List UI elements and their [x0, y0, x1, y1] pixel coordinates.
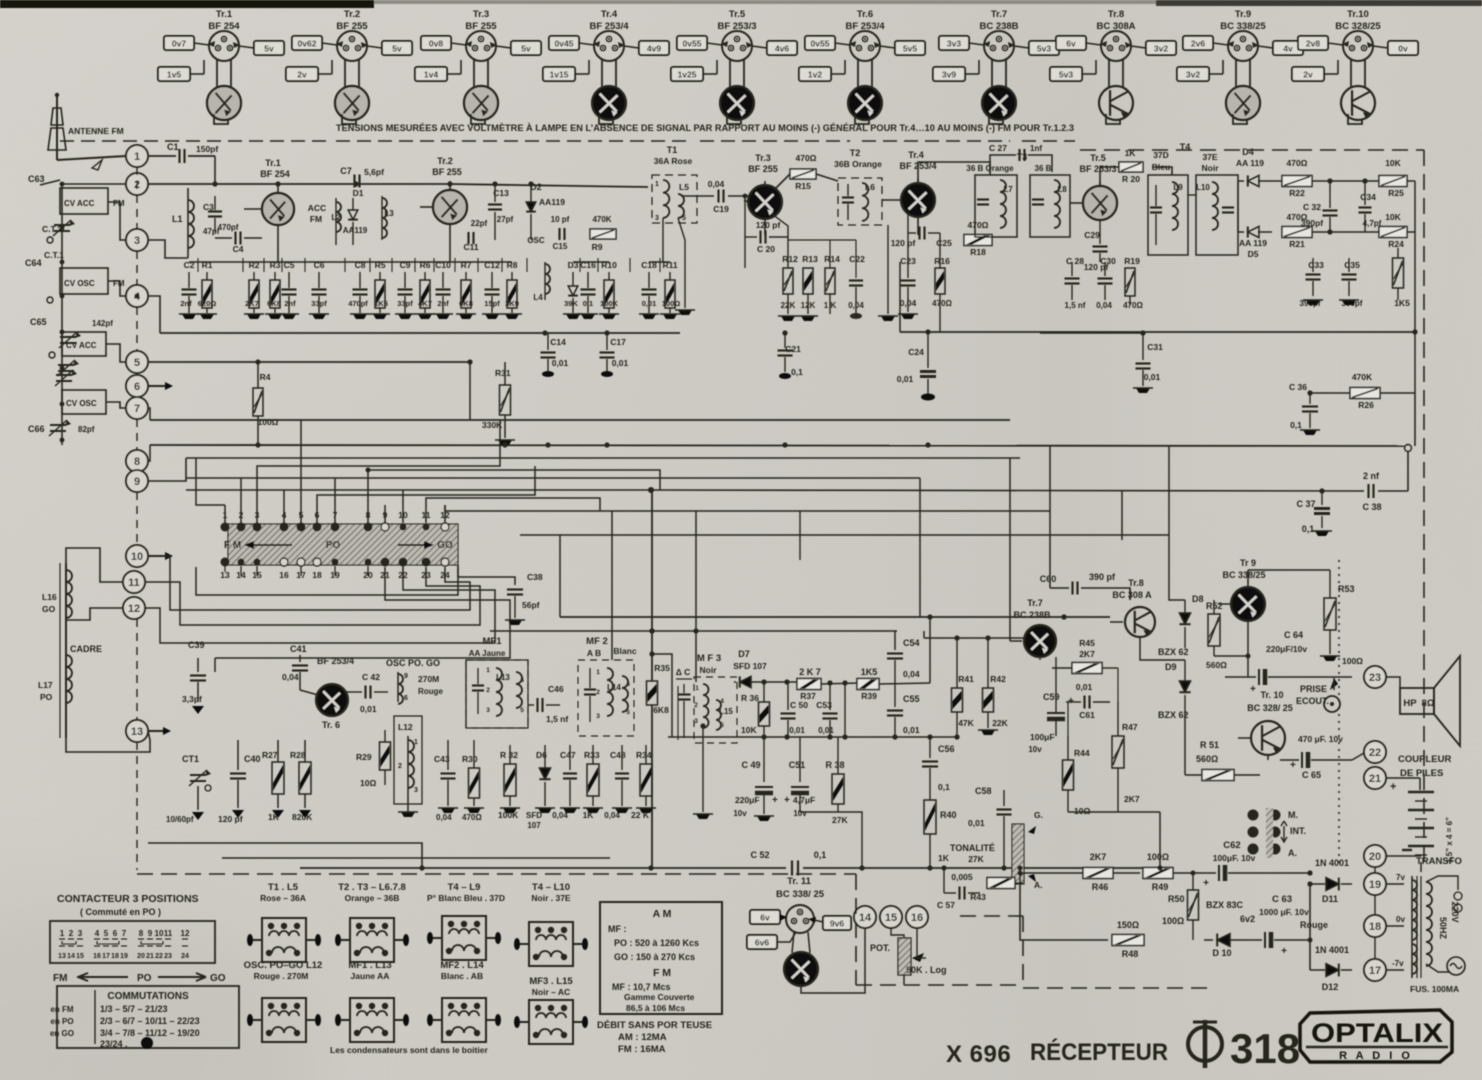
svg-text:R 38: R 38	[825, 760, 844, 770]
svg-text:D8: D8	[1192, 594, 1204, 604]
svg-text:470Ω: 470Ω	[1287, 212, 1308, 222]
transistor Tr.1 BF254 (circuit)	[244, 158, 294, 262]
svg-text:C58: C58	[975, 786, 992, 796]
svg-text:Noir: Noir	[700, 665, 718, 675]
svg-text:5: 5	[134, 357, 140, 369]
svg-text:0,1: 0,1	[791, 367, 803, 377]
node 23	[1364, 666, 1386, 688]
capacitor C4 470pf	[215, 223, 262, 254]
switch pin 1	[221, 505, 230, 532]
capacitor C50 0,01	[781, 682, 809, 737]
resistor R36 10K	[741, 682, 770, 737]
node 17	[1364, 959, 1386, 981]
resistor R53 100ohm	[1320, 570, 1363, 666]
switch pin 20	[363, 559, 373, 581]
svg-text:17: 17	[1369, 965, 1381, 977]
svg-text:R27: R27	[262, 750, 278, 760]
svg-text:FM: FM	[53, 973, 67, 984]
resistor R42 22K	[978, 638, 1009, 735]
svg-text:5v: 5v	[392, 44, 402, 54]
transistor Tr.11 BC338/25 (voltage chart)	[747, 876, 865, 993]
svg-text:GO: GO	[42, 604, 56, 614]
svg-text:27pf: 27pf	[497, 215, 514, 224]
svg-text:C 27: C 27	[989, 143, 1007, 153]
svg-text:R25: R25	[1388, 188, 1404, 198]
svg-text:1: 1	[134, 151, 140, 163]
svg-text:Tr.5: Tr.5	[729, 9, 746, 20]
svg-text:AA 119: AA 119	[1239, 238, 1267, 248]
capacitor C12	[482, 260, 502, 319]
svg-text:L14: L14	[607, 683, 621, 692]
svg-text:120 pf: 120 pf	[756, 220, 781, 230]
svg-text:1: 1	[414, 739, 418, 746]
svg-text:en GO: en GO	[50, 1029, 74, 1038]
svg-text:MF3 . L15: MF3 . L15	[529, 976, 573, 987]
svg-text:0v7: 0v7	[172, 39, 186, 49]
svg-text:100μF. 10v: 100μF. 10v	[1213, 853, 1256, 863]
svg-text:CV ACC: CV ACC	[66, 341, 97, 350]
svg-text:L5: L5	[679, 182, 689, 192]
svg-text:BC 338/25: BC 338/25	[1222, 570, 1265, 580]
svg-text:Tr. 6: Tr. 6	[322, 720, 340, 730]
svg-text:0,1: 0,1	[938, 782, 950, 792]
svg-text:R26: R26	[1358, 400, 1374, 410]
svg-text:10Ω: 10Ω	[1074, 806, 1090, 816]
svg-text:0,01: 0,01	[789, 726, 805, 735]
svg-text:R28: R28	[290, 750, 306, 760]
svg-text:T2: T2	[850, 148, 861, 158]
svg-text:R24: R24	[1388, 239, 1404, 249]
svg-text:PO: PO	[326, 540, 341, 551]
svg-text:10v: 10v	[1028, 745, 1042, 754]
svg-text:MF1 . L13: MF1 . L13	[348, 960, 391, 971]
switch pin 8	[364, 505, 373, 532]
svg-text:5: 5	[104, 929, 109, 938]
svg-text:L17: L17	[38, 680, 53, 690]
top scan edge dark strips	[0, 0, 374, 8]
svg-text:R15: R15	[795, 181, 811, 191]
commutations table box	[50, 986, 239, 1049]
svg-text:37E: 37E	[1202, 152, 1217, 162]
svg-text:3: 3	[694, 718, 698, 725]
switch pin 17	[296, 558, 306, 580]
svg-text:5v3: 5v3	[1059, 70, 1073, 80]
coil L12	[394, 716, 422, 817]
svg-text:4,7μF: 4,7μF	[793, 795, 815, 805]
capacitor C34 4,7pf	[1359, 181, 1382, 232]
transformer detail MF2 L14	[427, 960, 501, 1042]
svg-text:L13: L13	[496, 673, 510, 682]
svg-text:318: 318	[1230, 1025, 1300, 1072]
svg-text:10/60pf: 10/60pf	[166, 815, 194, 824]
bus node 2 right	[148, 183, 450, 185]
svg-text:2nf: 2nf	[437, 299, 449, 308]
svg-text:Bleu: Bleu	[1152, 162, 1170, 172]
svg-text:R 20: R 20	[1122, 174, 1140, 184]
svg-text:107: 107	[527, 821, 541, 830]
switch pin 7	[331, 505, 340, 532]
svg-text:3: 3	[134, 235, 140, 247]
svg-text:Noir . 37E: Noir . 37E	[531, 893, 571, 903]
switch routing loops below	[224, 562, 226, 572]
capacitor C60 390pf	[1040, 572, 1130, 600]
svg-text:36 B Orange: 36 B Orange	[966, 164, 1014, 173]
transistor Tr.4 BF253/4 (circuit)	[882, 150, 937, 235]
svg-text:L6: L6	[865, 182, 875, 192]
node 21	[1364, 767, 1386, 789]
OPTALIX RADIO logo box	[1300, 1010, 1452, 1062]
svg-text:CV ACC: CV ACC	[64, 199, 95, 208]
svg-text:6K8: 6K8	[653, 705, 669, 715]
svg-text:C54: C54	[903, 638, 920, 648]
resistor R46 2K7	[1083, 852, 1140, 892]
svg-text:R12: R12	[782, 254, 798, 264]
node 4	[126, 285, 148, 307]
svg-text:C46: C46	[548, 684, 564, 694]
svg-text:100Ω: 100Ω	[1342, 656, 1363, 666]
svg-text:C60: C60	[1040, 574, 1057, 584]
capacitor C13 27pf	[488, 184, 514, 240]
svg-text:R31: R31	[495, 368, 511, 378]
mid bus y617 and y631	[560, 616, 1110, 618]
svg-text:C66: C66	[28, 424, 45, 434]
svg-text:GO: GO	[210, 973, 226, 984]
MF1 transformer L13 dashed box	[466, 636, 528, 728]
capacitor C30	[1096, 256, 1116, 310]
resistor R26 470K with C36	[1310, 372, 1415, 410]
svg-text:C30: C30	[1100, 256, 1116, 266]
capacitor C64 220uF electrolytic	[1225, 630, 1352, 695]
svg-text:0v45: 0v45	[555, 39, 574, 49]
svg-text:BC 308 A: BC 308 A	[1112, 590, 1152, 600]
svg-text:SFD 107: SFD 107	[733, 661, 767, 671]
cadre frame antenna coils L16 GO / L17 PO	[38, 548, 150, 752]
switch pin 19	[330, 559, 340, 581]
svg-text:0,01: 0,01	[1144, 372, 1161, 382]
svg-text:100μF: 100μF	[1030, 732, 1055, 742]
svg-text:ANTENNE FM: ANTENNE FM	[68, 126, 124, 136]
svg-text:R9: R9	[592, 242, 603, 252]
svg-text:0,04: 0,04	[708, 179, 725, 189]
vertical bus x800	[799, 511, 801, 560]
svg-text:Tr.5: Tr.5	[1090, 153, 1106, 163]
switch pin 5	[297, 505, 306, 532]
svg-text:100Ω: 100Ω	[258, 417, 279, 427]
svg-text:0,1: 0,1	[1302, 524, 1315, 534]
svg-text:+: +	[1281, 946, 1287, 957]
svg-text:C14: C14	[550, 337, 566, 347]
svg-text:13: 13	[58, 953, 66, 960]
capacitor C41 0,04	[282, 644, 308, 690]
svg-text:39K: 39K	[564, 299, 578, 308]
capacitor C29 120pf	[1084, 220, 1109, 272]
switch MIA dots	[1248, 808, 1307, 858]
svg-text:8: 8	[139, 929, 144, 938]
svg-text:11: 11	[128, 577, 140, 589]
C52 bus and cap	[300, 850, 1160, 876]
svg-text:C62: C62	[1223, 840, 1240, 851]
diode D9 BZX62	[1158, 660, 1191, 775]
svg-text:470Ω: 470Ω	[968, 220, 989, 230]
switch pin 23	[421, 558, 431, 581]
resistor R10	[599, 260, 619, 319]
svg-text:2K7: 2K7	[1079, 649, 1095, 659]
svg-text:BC 238B: BC 238B	[1013, 610, 1051, 620]
svg-text:2nf: 2nf	[180, 299, 192, 308]
capacitor C62 100uF electrolytic	[1203, 840, 1310, 889]
svg-text:G.: G.	[1034, 810, 1043, 820]
svg-text:2v6: 2v6	[1191, 39, 1205, 49]
switch pin 15	[252, 559, 262, 581]
svg-text:22K: 22K	[992, 718, 1008, 728]
svg-text:16: 16	[911, 912, 923, 924]
svg-text:4: 4	[520, 677, 524, 684]
svg-text:22K: 22K	[781, 301, 796, 310]
svg-text:L1: L1	[172, 214, 183, 224]
transistor Tr.4 BF 253/4 (voltage chart)	[543, 9, 669, 124]
transformer TRANSFO	[1386, 856, 1465, 994]
svg-text:T1: T1	[667, 145, 678, 155]
svg-text:Gamme Couverte: Gamme Couverte	[624, 992, 695, 1002]
capacitor C24 0,01	[897, 332, 936, 401]
wire from bus 332 down right edge	[1414, 300, 1416, 393]
svg-text:220μF: 220μF	[735, 795, 760, 805]
svg-text:C19: C19	[713, 204, 729, 214]
svg-text:0,01: 0,01	[897, 374, 914, 384]
capacitor C49 220uF 10v electrolytic	[733, 737, 778, 821]
svg-text:C 52: C 52	[750, 850, 769, 860]
capacitor C16	[578, 260, 598, 319]
capacitor C7 5,6pf	[340, 166, 384, 188]
svg-text:1: 1	[596, 669, 600, 676]
capacitor C36 0,1	[1289, 382, 1320, 435]
svg-text:R48: R48	[1122, 949, 1139, 959]
svg-text:R35: R35	[654, 663, 670, 673]
resistor R43 27K	[968, 854, 1023, 902]
svg-text:1K5: 1K5	[861, 667, 878, 677]
svg-text:R39: R39	[861, 691, 877, 701]
transformer T4 coil L10 37E Noir	[1196, 152, 1238, 255]
wire Tr.3 emitter	[772, 214, 788, 268]
resistor R48 150ohm	[1112, 920, 1144, 959]
bottom bus under FM front end	[160, 332, 680, 334]
capacitor C6	[309, 260, 329, 319]
svg-text:6: 6	[404, 695, 408, 702]
resistor R18 470 horizontal dark	[964, 220, 992, 257]
svg-text:14: 14	[67, 953, 75, 960]
svg-text:0,01: 0,01	[818, 726, 834, 735]
resistor R45 2K7 feedback	[1052, 638, 1118, 674]
svg-text:C17: C17	[610, 337, 626, 347]
svg-text:T4 – L9: T4 – L9	[448, 882, 481, 893]
svg-text:en PO: en PO	[50, 1017, 73, 1026]
svg-text:0,1: 0,1	[1290, 420, 1302, 430]
coil L2	[331, 198, 341, 245]
capacitor C1 150pf	[148, 142, 218, 163]
svg-text:36B Orange: 36B Orange	[834, 159, 882, 169]
svg-text:L15: L15	[719, 707, 733, 716]
switch pin 16	[279, 558, 289, 580]
svg-text:11: 11	[164, 929, 173, 938]
svg-text:D1: D1	[353, 188, 364, 198]
resistor R38 27K	[800, 737, 862, 868]
svg-text:8: 8	[134, 456, 140, 468]
svg-text:2v: 2v	[297, 70, 307, 80]
resistor R23 1K5	[1393, 248, 1411, 308]
capacitor C20 120pf	[743, 194, 865, 321]
svg-text:4v9: 4v9	[647, 44, 661, 54]
node chain dashed spine	[136, 167, 138, 229]
svg-text:AA119: AA119	[539, 197, 565, 207]
svg-text:Tr.10: Tr.10	[1347, 9, 1369, 20]
svg-text:3v9: 3v9	[942, 70, 956, 80]
svg-text:Blanc: Blanc	[613, 646, 636, 656]
svg-text:Tr.3: Tr.3	[473, 9, 489, 20]
svg-text:MF1: MF1	[483, 636, 503, 647]
transistor Tr.7 BC238B	[1010, 598, 1056, 657]
svg-text:C61: C61	[1079, 710, 1095, 720]
diode D11 1N4001	[1310, 858, 1352, 904]
capacitor C28	[1065, 256, 1086, 310]
svg-text:A B: A B	[587, 648, 601, 658]
switch pin bottom stubs	[240, 566, 242, 576]
node 18	[1364, 915, 1386, 937]
svg-text:R 36: R 36	[741, 693, 759, 703]
transistor Tr.6 BF253/4 oscillator	[300, 656, 354, 730]
svg-text:COMMUTATIONS: COMMUTATIONS	[107, 991, 189, 1002]
svg-text:R43: R43	[970, 892, 986, 902]
svg-text:56pf: 56pf	[522, 600, 540, 610]
svg-text:10K: 10K	[1385, 212, 1401, 222]
capacitor C38 56pf	[458, 565, 543, 625]
svg-text:INT.: INT.	[1290, 826, 1306, 836]
svg-text:C 50: C 50	[790, 700, 808, 710]
svg-text:4: 4	[626, 681, 630, 688]
svg-text:BF 253/4: BF 253/4	[899, 161, 936, 171]
arrow stub node 10	[148, 555, 165, 557]
svg-text:Noir – AC: Noir – AC	[532, 987, 570, 997]
svg-text:TENSIONS MESURÉES AVEC VOLT: TENSIONS MESURÉES AVEC VOLTMÈTRE À LAMPE…	[336, 123, 1074, 134]
diode D3	[563, 260, 583, 319]
svg-text:en FM: en FM	[50, 1005, 73, 1014]
bottom rail y737 MF row	[668, 736, 957, 738]
bus y491 right half	[651, 490, 1364, 491]
bottom-left lower wires	[148, 843, 422, 868]
resistor R21 470ohm	[1282, 212, 1340, 249]
svg-text:C 32: C 32	[1303, 202, 1321, 212]
label row separator ticks FM front end	[197, 258, 199, 272]
svg-text:CV OSC: CV OSC	[64, 279, 95, 288]
svg-text:HP: HP	[1403, 698, 1417, 709]
switch pin 10	[398, 505, 408, 531]
svg-text:0,01: 0,01	[642, 299, 657, 308]
svg-text:1000 μF. 10v: 1000 μF. 10v	[1259, 907, 1309, 917]
node 20	[1364, 845, 1386, 867]
capacitor C47 0,04	[552, 745, 580, 820]
wire node20 to battery minus	[1386, 855, 1421, 857]
svg-text:+: +	[784, 795, 790, 806]
contactor pin diagram box	[50, 921, 215, 963]
svg-text:86,5 à 106 Mcs: 86,5 à 106 Mcs	[626, 1003, 685, 1013]
svg-text:560Ω: 560Ω	[1196, 754, 1218, 764]
svg-text:470Ω: 470Ω	[1287, 158, 1308, 168]
svg-text:Tr.4: Tr.4	[908, 150, 924, 160]
svg-text:3v2: 3v2	[1154, 44, 1168, 54]
svg-text:220μF/10v: 220μF/10v	[1266, 644, 1307, 654]
svg-text:+: +	[1203, 878, 1209, 889]
node 22	[1364, 741, 1386, 763]
svg-text:50HZ: 50HZ	[1438, 917, 1448, 940]
capacitor C33 390pf	[1300, 258, 1325, 308]
svg-text:0,04: 0,04	[900, 298, 917, 308]
capacitor C59 100uF electrolytic	[1028, 692, 1074, 754]
detector wiring	[1188, 194, 1196, 196]
switch pin 6	[313, 505, 322, 532]
coil L3	[382, 196, 394, 240]
svg-text:C35: C35	[1344, 260, 1360, 270]
svg-text:C25: C25	[936, 238, 952, 248]
svg-text:T2 . T3 – L6.7.8: T2 . T3 – L6.7.8	[338, 882, 406, 893]
capacitor C65 470uF electrolytic	[1280, 734, 1352, 780]
svg-text:1,5 nf: 1,5 nf	[546, 714, 568, 724]
svg-text:C38: C38	[527, 572, 543, 582]
svg-text:6v: 6v	[1066, 39, 1076, 49]
svg-text:Tr.8: Tr.8	[1108, 9, 1124, 20]
resistor R32 100K	[498, 745, 520, 820]
resistor R16 470	[932, 233, 952, 332]
wire C65 to node 22	[1352, 753, 1364, 760]
svg-text:C65: C65	[30, 317, 47, 327]
wires pot to nodes	[916, 929, 918, 958]
svg-text:C 36: C 36	[1289, 382, 1307, 392]
svg-text:0v55: 0v55	[683, 39, 702, 49]
capacitor C10	[433, 260, 453, 319]
top connection rail for columns	[189, 261, 512, 263]
resistor R25 10K	[1330, 158, 1415, 198]
svg-text:470K: 470K	[592, 215, 611, 224]
resistor R29 10ohm	[356, 730, 391, 788]
capacitor C46 1,5nf	[528, 684, 568, 724]
transformer detail T4 L9	[427, 882, 505, 960]
dashed rule under note	[60, 140, 330, 142]
svg-text:10v: 10v	[793, 809, 807, 818]
svg-text:C63: C63	[28, 174, 45, 184]
svg-text:R50: R50	[1168, 894, 1185, 904]
svg-text:1v15: 1v15	[550, 70, 569, 80]
wire x696 dropper	[695, 511, 697, 682]
svg-text:C.T.1: C.T.1	[44, 250, 64, 260]
svg-text:+: +	[1390, 781, 1396, 793]
svg-text:P° Blanc Bleu . 37D: P° Blanc Bleu . 37D	[427, 893, 505, 903]
svg-text:6K8: 6K8	[459, 299, 473, 308]
svg-text:D4: D4	[1242, 147, 1254, 157]
svg-text:1K5: 1K5	[374, 299, 388, 308]
svg-text:R 51: R 51	[1200, 740, 1219, 750]
svg-text:C 64: C 64	[1284, 630, 1303, 640]
svg-text:36A Rose: 36A Rose	[654, 156, 693, 166]
diode D4 AA119	[1236, 147, 1272, 187]
capacitor C19 0,04	[681, 179, 748, 214]
svg-text:270M: 270M	[418, 674, 439, 684]
capacitor C39 3,3pf	[182, 640, 206, 714]
oscillator coil OSC PO-GO	[386, 658, 443, 704]
diode D12 1N4001	[1310, 945, 1352, 992]
svg-text:5v3: 5v3	[1037, 44, 1051, 54]
svg-text:AA119: AA119	[343, 226, 368, 235]
svg-text:D5: D5	[1248, 249, 1259, 259]
svg-text:470pf: 470pf	[218, 223, 239, 232]
svg-text:L4: L4	[533, 293, 543, 302]
